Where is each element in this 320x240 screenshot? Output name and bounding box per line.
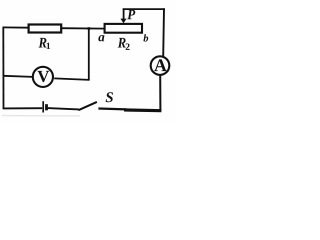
resistor R1 [29, 25, 62, 33]
switch S blade [78, 102, 97, 110]
slider P wire vertical [123, 8, 125, 19]
voltmeter V [33, 67, 53, 87]
wire bottom left horizontal [3, 107, 43, 109]
wire battery right to switch pivot [48, 108, 79, 109]
label R1 [39, 38, 47, 48]
wire top left horizontal [3, 26, 29, 28]
wire R1 to R2 [61, 27, 105, 29]
battery short thick plate [45, 104, 48, 110]
terminal a label [98, 35, 104, 41]
label S [106, 92, 113, 102]
wire left vertical [2, 27, 4, 109]
rheostat R2 body [105, 24, 142, 33]
wire right vertical upper [162, 8, 165, 56]
ammeter A [151, 56, 170, 75]
wire junction vertical down [88, 28, 90, 80]
wire right vertical lower [159, 75, 161, 111]
terminal b label [143, 34, 148, 41]
wire bottom right thick segment [124, 108, 161, 112]
label P [127, 10, 135, 19]
wire voltmeter right horizontal [54, 78, 89, 80]
node junction between R1 and R2 [88, 27, 91, 30]
scan artifact faint streak [2, 115, 80, 117]
battery long plate [42, 101, 44, 112]
slider P arrowhead [120, 19, 126, 24]
wire bottom right thick [98, 107, 126, 110]
wire voltmeter left horizontal [4, 76, 33, 77]
wire slider to top right [123, 8, 165, 10]
label R2 [118, 38, 126, 48]
